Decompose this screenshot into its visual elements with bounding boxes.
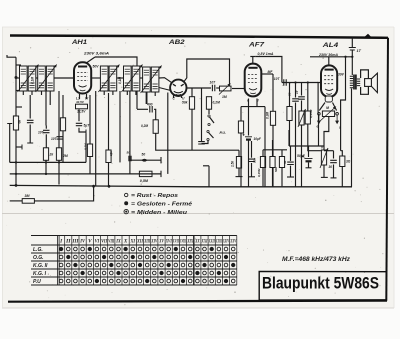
svg-text:0,5M: 0,5M (140, 179, 149, 183)
svg-text:IX: IX (115, 239, 121, 245)
AH1 cathode resistor (76, 104, 88, 109)
wire 3M right (34, 186, 93, 201)
waveband switch contact a (208, 115, 210, 117)
svg-text:K.G. II: K.G. II (33, 263, 48, 269)
IF transformer 2 coil a (124, 66, 132, 91)
svg-text:10µF: 10µF (254, 137, 262, 141)
filter drop 104 (103, 91, 105, 95)
AF7 anode L wire (255, 57, 282, 83)
antenna input bend (7, 55, 16, 57)
wire 308 (308, 146, 310, 157)
AF7 cathode resistor (238, 121, 243, 133)
cap left AVC (27, 120, 34, 122)
svg-text:39V: 39V (338, 73, 345, 77)
resistor 2k (43, 148, 48, 161)
svg-text:50: 50 (283, 160, 287, 164)
wire screen res down (289, 121, 291, 147)
svg-text:10T: 10T (274, 77, 281, 81)
svg-text:50n: 50n (253, 158, 257, 163)
wire IFT2 to IFT3 (140, 77, 143, 79)
cap 1T top (351, 38, 353, 48)
AH1 pins (79, 94, 81, 99)
detector coupling cap 10T (212, 85, 214, 91)
terminal a arrow (336, 115, 339, 123)
terminal e arrow (318, 115, 321, 123)
svg-text:0,8V 1mA: 0,8V 1mA (258, 52, 274, 56)
bus line 3 (10, 185, 352, 186)
frame bump mark (365, 34, 372, 37)
svg-text:10k: 10k (109, 151, 113, 156)
volume pot 1M (220, 86, 232, 91)
svg-text:2k: 2k (49, 153, 54, 157)
AF7 cathode resistor wire (240, 107, 242, 121)
resistor 0,2M AB2 (206, 97, 211, 110)
svg-text:50: 50 (127, 151, 131, 155)
svg-text:XI: XI (130, 239, 136, 245)
paper noise speckles (7, 29, 387, 305)
svg-text:6k: 6k (18, 120, 22, 124)
IF transformer 2 coil b (132, 66, 140, 91)
svg-text:0,2M: 0,2M (213, 101, 221, 105)
svg-text:XV: XV (159, 239, 165, 245)
legend filled circle (124, 201, 128, 205)
svg-text:1M: 1M (222, 95, 227, 99)
wire osc grid res (62, 95, 64, 118)
wire vert 46 (45, 91, 47, 126)
cap 400 (150, 106, 152, 113)
pickup switch contact b (207, 130, 209, 132)
svg-text:Blaupunkt 5W86S: Blaupunkt 5W86S (262, 275, 379, 293)
resistor osc grid (60, 118, 65, 131)
svg-text:230V 3,6mA: 230V 3,6mA (83, 51, 109, 56)
cap 5µT (76, 123, 82, 125)
svg-text:X: X (123, 239, 128, 245)
switch table contact dots (59, 247, 63, 251)
AF7 bypass elec 10µF (245, 136, 252, 138)
wire 0,3M to bus (272, 125, 274, 186)
bus1 riser (85, 134, 87, 163)
AH1 plate wire (87, 57, 95, 63)
svg-text:XIII: XIII (144, 239, 151, 245)
wire 0,15M down (308, 124, 321, 151)
MF stub wire (262, 73, 274, 75)
IF transformer 3 coil a (143, 67, 151, 92)
wire 90 to bus (89, 157, 91, 174)
svg-text:30: 30 (329, 165, 333, 169)
IFT1 tuning arrow (98, 65, 119, 93)
AB2 top cap wire (184, 59, 230, 86)
wire AL4 cathode down (324, 117, 329, 150)
svg-text:AH1: AH1 (71, 40, 88, 46)
paper fold line (2, 213, 394, 215)
output transformer primary wire (351, 57, 353, 75)
wire vert 108.5 upper (108, 93, 110, 150)
psu left vertical (208, 166, 210, 187)
svg-text:50: 50 (142, 153, 146, 157)
svg-text:= Rust - Repos: = Rust - Repos (131, 193, 178, 199)
wire 0,15M top (307, 83, 309, 112)
cap 1T drop (301, 83, 303, 96)
filter drop 41 (41, 91, 43, 95)
svg-text:XXIII: XXIII (215, 239, 222, 245)
resistor 0,15M psu (260, 157, 265, 168)
pot terminal e (318, 113, 321, 116)
svg-text:50k: 50k (182, 101, 188, 105)
filter drop 113 (112, 91, 114, 95)
svg-text:XXI: XXI (201, 239, 208, 245)
wire cap 400 (137, 108, 148, 110)
svg-text:IV: IV (79, 239, 85, 245)
grid leak line (201, 88, 203, 141)
resistor 50k psu2 (279, 157, 284, 168)
wire r to switch (208, 109, 210, 114)
cap 10T osc (57, 137, 64, 139)
svg-text:XXIV: XXIV (223, 239, 230, 245)
AL4 supply line (310, 56, 352, 58)
wire 2k to bus (45, 160, 47, 174)
sheet bottom edge (2, 307, 394, 309)
wire filter to AH1 grid (54, 77, 76, 79)
wire AB2 load to bus (191, 109, 193, 150)
resistor 6k (13, 116, 18, 130)
svg-text:K.G. I: K.G. I (33, 271, 47, 277)
bandfilter tuning arrow 1 (18, 65, 39, 93)
wire cap left (29, 95, 31, 119)
tone pot M (322, 111, 334, 117)
svg-text:50k: 50k (274, 167, 278, 172)
svg-text:L.G.: L.G. (33, 247, 43, 253)
resistor 0,15M (305, 111, 310, 124)
resistor 50k AB2 load (189, 97, 194, 110)
wire vert 90 upper (89, 95, 91, 144)
svg-text:230V 36mA: 230V 36mA (318, 53, 338, 57)
svg-text:5µT: 5µT (84, 123, 91, 127)
screen resistor (287, 107, 292, 121)
wire 108.5 to bus (108, 163, 110, 187)
far-left riser (9, 124, 11, 163)
border frame bottom (8, 301, 387, 302)
wire 3M feed (10, 200, 23, 202)
filter drop 136 (135, 91, 137, 95)
coupling line to AL4 (282, 82, 321, 84)
pot terminal a (336, 113, 339, 116)
border frame top (10, 36, 388, 38)
bus line 2 (10, 173, 161, 175)
svg-text:AB2: AB2 (168, 40, 186, 46)
wire 50k psu2 (281, 150, 283, 157)
wire cap out (333, 151, 335, 159)
svg-text:P.U.: P.U. (220, 131, 227, 135)
svg-text:0,15M: 0,15M (257, 168, 261, 177)
IFT3 tuning arrow (141, 66, 162, 94)
resistor 0,2M osc (153, 120, 158, 134)
cap 50 on jumper (129, 156, 131, 161)
wire vert 95.7 (95, 91, 97, 186)
filter drop 146 (145, 92, 147, 104)
wire IFT3 to AB2 (159, 88, 171, 91)
svg-text:0,15M: 0,15M (309, 109, 313, 118)
cap out (330, 160, 337, 162)
wire between filters (36, 77, 38, 79)
coupling junction dots (294, 81, 296, 83)
wire AH1 to IFT1 (92, 77, 101, 79)
IF transformer 1 coil a (100, 66, 108, 91)
wire AB2 detector (186, 87, 211, 89)
bus junction dots (45, 161, 47, 163)
svg-text:50: 50 (288, 92, 292, 96)
resistor 2M (56, 148, 61, 161)
svg-text:XX: XX (194, 239, 200, 245)
bus2 T end (160, 171, 162, 177)
wire 3ohm (341, 151, 343, 156)
bandfilter coil L1b (28, 66, 36, 91)
svg-text:50µF: 50µF (297, 154, 306, 158)
bandfilter tuning arrow 2 (36, 65, 57, 93)
svg-text:0,3M: 0,3M (266, 112, 270, 119)
wire 2M to bus (58, 160, 60, 184)
svg-text:XXII: XXII (208, 239, 215, 245)
svg-text:V: V (88, 239, 92, 245)
svg-text:0,2M: 0,2M (141, 124, 148, 128)
varistor sym (299, 111, 304, 125)
svg-text:AL4: AL4 (321, 43, 339, 49)
left stub y107 (16, 106, 22, 108)
wire vert 155 filter (154, 92, 156, 96)
IFT2 tuning arrow (122, 65, 143, 93)
bandfilter coil L2a (38, 66, 46, 91)
wire vert 120 (119, 91, 121, 162)
bus segment 1b (130, 159, 161, 161)
svg-text:3Ω: 3Ω (346, 160, 351, 164)
svg-text:O.G.: O.G. (33, 255, 44, 261)
cap 50n psu c (287, 162, 294, 164)
cap 500 lens (141, 159, 147, 162)
tube AL4 envelope (321, 65, 337, 97)
screen feed wire (289, 83, 291, 107)
output transformer secondary coil (357, 79, 360, 86)
left stub y147 (16, 146, 22, 148)
left stub y90 (16, 90, 21, 92)
wire pot to AF7 grid (232, 88, 246, 90)
svg-text:L1: L1 (76, 97, 80, 101)
left stub y65 (16, 64, 21, 66)
svg-text:P.U: P.U (33, 279, 41, 285)
wire cap to pot (216, 87, 219, 89)
psu top connections (289, 145, 324, 147)
border frame right (386, 38, 388, 301)
svg-text:1,5k: 1,5k (231, 161, 235, 167)
svg-text:0,1M: 0,1M (31, 77, 35, 84)
title box (259, 271, 386, 301)
svg-text:XIV: XIV (151, 239, 158, 245)
wire left vertical (15, 57, 17, 185)
filter drop 127 (126, 91, 128, 95)
switch table grid (31, 235, 237, 237)
grid leak vertical (272, 74, 274, 111)
AL4 base (325, 96, 332, 102)
svg-text:AF7: AF7 (248, 43, 265, 49)
sheet left edge (2, 27, 4, 308)
wire NTC (323, 165, 325, 177)
resistor 3ohm (340, 156, 345, 167)
cap 50n psu a (248, 159, 255, 161)
coupling cap 10T AL4 (284, 79, 286, 86)
svg-text:XVIII: XVIII (180, 239, 187, 245)
svg-text:0,1M: 0,1M (118, 77, 122, 84)
bus line 1 (10, 161, 86, 163)
elec cap 50µF (305, 158, 313, 160)
svg-text:M.F.=468 kHz/473 kHz: M.F.=468 kHz/473 kHz (282, 257, 350, 263)
wire cap 5µT (78, 109, 80, 121)
tube AF7 envelope (245, 64, 262, 97)
svg-text:VIII: VIII (108, 239, 115, 245)
wire 0,15M psu (262, 150, 264, 157)
filter drop 50 (49, 91, 51, 105)
left junction blob (15, 76, 18, 79)
resistor 0,1M pad (87, 144, 92, 157)
svg-text:VII: VII (101, 239, 108, 245)
resistor 3M (22, 199, 34, 204)
filter drop 23 (22, 91, 24, 95)
wire 0,2M osc feeder (156, 133, 239, 150)
wire IFT1 to IFT2 (117, 77, 124, 79)
AL4 base wires (319, 103, 325, 111)
tube AH1 envelope (74, 62, 91, 93)
svg-text:= Gesloten - Fermé: = Gesloten - Fermé (131, 202, 192, 208)
svg-text:= Midden - Milieu: = Midden - Milieu (131, 210, 188, 216)
svg-text:XII: XII (136, 239, 144, 245)
wire vert 147 filter (146, 92, 148, 104)
resistor 1,5k psu (236, 157, 241, 169)
legend open circle (125, 193, 128, 196)
volume pot 0,5M (139, 171, 152, 176)
wire vert 137 (136, 91, 138, 109)
speaker cone (371, 73, 377, 92)
resistor 50k psu (270, 157, 275, 168)
cap 50 drop (295, 83, 297, 98)
sheet top edge (2, 26, 394, 28)
wire 1,5k psu (238, 150, 240, 156)
wire AB2 load drop (191, 88, 193, 97)
bandfilter coil L1a (20, 66, 28, 91)
output transformer primary coil (350, 76, 353, 88)
NTC resistor (321, 150, 326, 165)
AF7 pin drops (248, 99, 250, 107)
wire 50k psu (272, 150, 274, 157)
grid cap plates (198, 142, 205, 144)
supply junction dots (344, 56, 346, 58)
filter drop 32 (31, 91, 33, 95)
IF transformer 1 coil b (109, 66, 117, 91)
svg-text:XVI: XVI (165, 239, 172, 245)
AL4 top wire (328, 57, 330, 66)
grid stopper wires (317, 83, 319, 113)
tube AB2 envelope (170, 80, 186, 96)
legend double circle (124, 209, 128, 213)
svg-text:XVII: XVII (172, 239, 179, 245)
svg-text:XIX: XIX (187, 239, 194, 245)
AF7 top cap (252, 57, 254, 64)
AB2 grid entry wire (159, 78, 173, 84)
cap 10T left (43, 130, 50, 132)
speaker bracket (361, 70, 369, 94)
speaker magnet (365, 79, 372, 87)
wire cap 10T left (45, 126, 47, 129)
resistor 0,3M (270, 111, 275, 125)
wire varistor down (301, 125, 303, 187)
svg-text:1T: 1T (357, 49, 362, 53)
svg-text:10T: 10T (210, 81, 217, 85)
AF7 right pin drop (264, 107, 266, 187)
bandfilter coil L2b (46, 66, 54, 91)
AF7 bypass wire (248, 107, 250, 136)
AF7 pin bus (241, 106, 265, 108)
wire vert 59 (58, 91, 60, 148)
sheet right edge (393, 27, 395, 308)
left stub y78 (16, 77, 20, 79)
resistor 10k (106, 150, 111, 163)
psu header wire (263, 149, 287, 151)
wire pot e down (318, 114, 320, 147)
jumper 129.9 (129, 91, 131, 174)
svg-text:XXV: XXV (230, 239, 237, 245)
output transformer feed (341, 57, 346, 151)
wire psu 290 (290, 146, 292, 161)
wire AF7 cath to bus (240, 133, 242, 187)
wire AF7 bypass to bus (248, 141, 250, 187)
AB2 pin wires (173, 95, 175, 99)
svg-text:50V: 50V (93, 65, 100, 69)
wire psu 251 (251, 141, 253, 158)
IF transformer 3 coil b (151, 67, 159, 92)
svg-text:12,5V: 12,5V (77, 110, 86, 114)
output transformer core (354, 75, 356, 90)
svg-text:III: III (71, 239, 79, 245)
